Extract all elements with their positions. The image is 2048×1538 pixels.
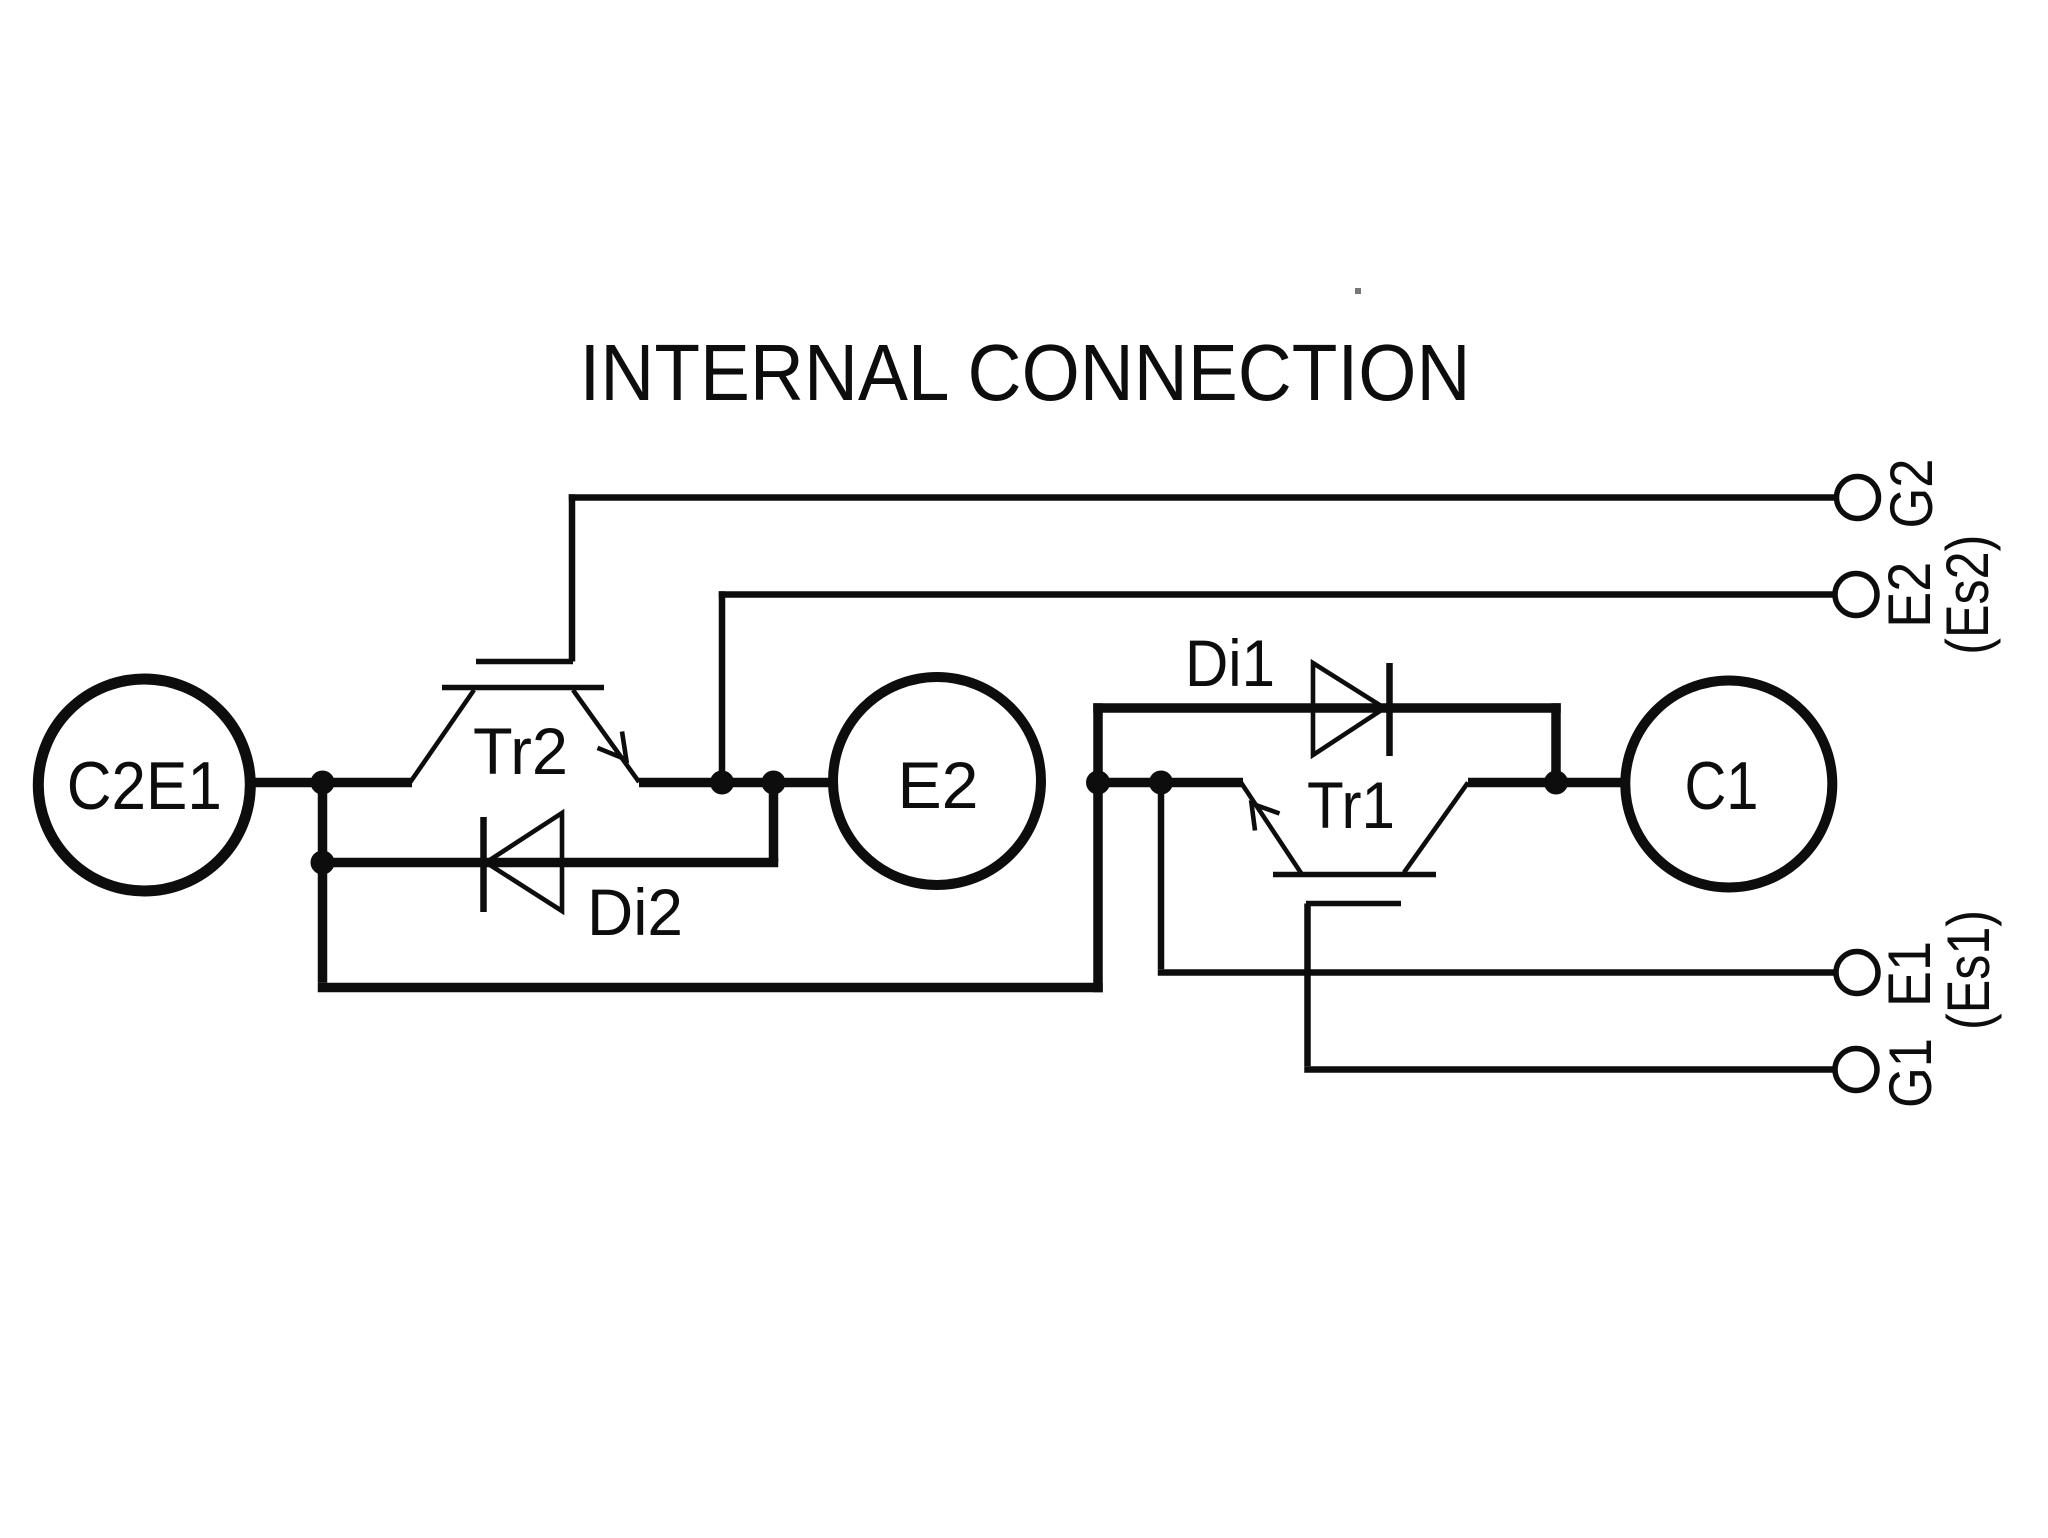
- wire node A to node D: [318, 783, 328, 863]
- node C (Di2 anode tap): [762, 771, 786, 795]
- node G (Di1 cathode junction): [1544, 771, 1568, 795]
- wire node E to Tr1 emitter: [1098, 778, 1243, 788]
- wire Tr1 collector to C1: [1468, 778, 1624, 788]
- wire Tr2 gate lead to G2: [569, 494, 1837, 661]
- svg-text:Tr1: Tr1: [1307, 768, 1395, 842]
- wire E1 sense (Es1): [1158, 783, 1834, 973]
- stray mark: [1355, 288, 1361, 294]
- wire node C down to Di2 anode: [769, 783, 779, 863]
- svg-text:(Es1): (Es1): [1935, 910, 2002, 1030]
- terminal G2: [1837, 459, 1946, 529]
- wire C2E1 to node A: [250, 778, 323, 788]
- svg-text:C2E1: C2E1: [67, 748, 222, 824]
- terminal E2 (Es2): [1835, 535, 2001, 655]
- svg-text:E1: E1: [1876, 941, 1943, 1007]
- svg-text:E2: E2: [1876, 562, 1943, 628]
- svg-text:Tr2: Tr2: [473, 714, 568, 788]
- svg-text:G2: G2: [1878, 459, 1945, 529]
- svg-text:G1: G1: [1877, 1038, 1944, 1108]
- wire Tr1 gate lead to G1: [1304, 904, 1833, 1070]
- node D (Di2 cathode junction): [311, 851, 335, 875]
- terminal circle C1: [1625, 681, 1832, 888]
- svg-text:E2: E2: [898, 748, 979, 822]
- terminal circle C2E1: [38, 679, 250, 891]
- node F (Es1 sense tap): [1149, 771, 1173, 795]
- svg-text:(Es2): (Es2): [1934, 535, 2001, 655]
- terminal G1: [1835, 1038, 1944, 1108]
- svg-text:INTERNAL CONNECTION: INTERNAL CONNECTION: [580, 328, 1471, 417]
- transistor Tr1: [1241, 768, 1468, 904]
- node E (Tr1 emitter junction): [1086, 771, 1110, 795]
- wire node A to Tr2 collector: [323, 778, 413, 788]
- wire E2 sense (Es2): [719, 591, 1835, 782]
- svg-text:Di2: Di2: [587, 875, 683, 949]
- title: [580, 328, 1471, 417]
- wire Tr2 emitter to E2: [639, 778, 830, 788]
- wire Di1 branch: [1093, 703, 1561, 782]
- transistor Tr2: [409, 662, 639, 789]
- terminal circle E2: [833, 677, 1041, 885]
- diode Di1: [1185, 626, 1390, 756]
- svg-text:Di1: Di1: [1185, 626, 1275, 700]
- terminal E1 (Es1): [1836, 910, 2002, 1030]
- svg-text:C1: C1: [1685, 748, 1759, 824]
- wire Di2 row: [323, 858, 779, 868]
- wire bottom run node D to Di1 anode: [318, 703, 1103, 992]
- diode Di2: [484, 813, 684, 949]
- node B (Es2 sense tap): [710, 771, 734, 795]
- node A (junction at C2E1): [311, 771, 335, 795]
